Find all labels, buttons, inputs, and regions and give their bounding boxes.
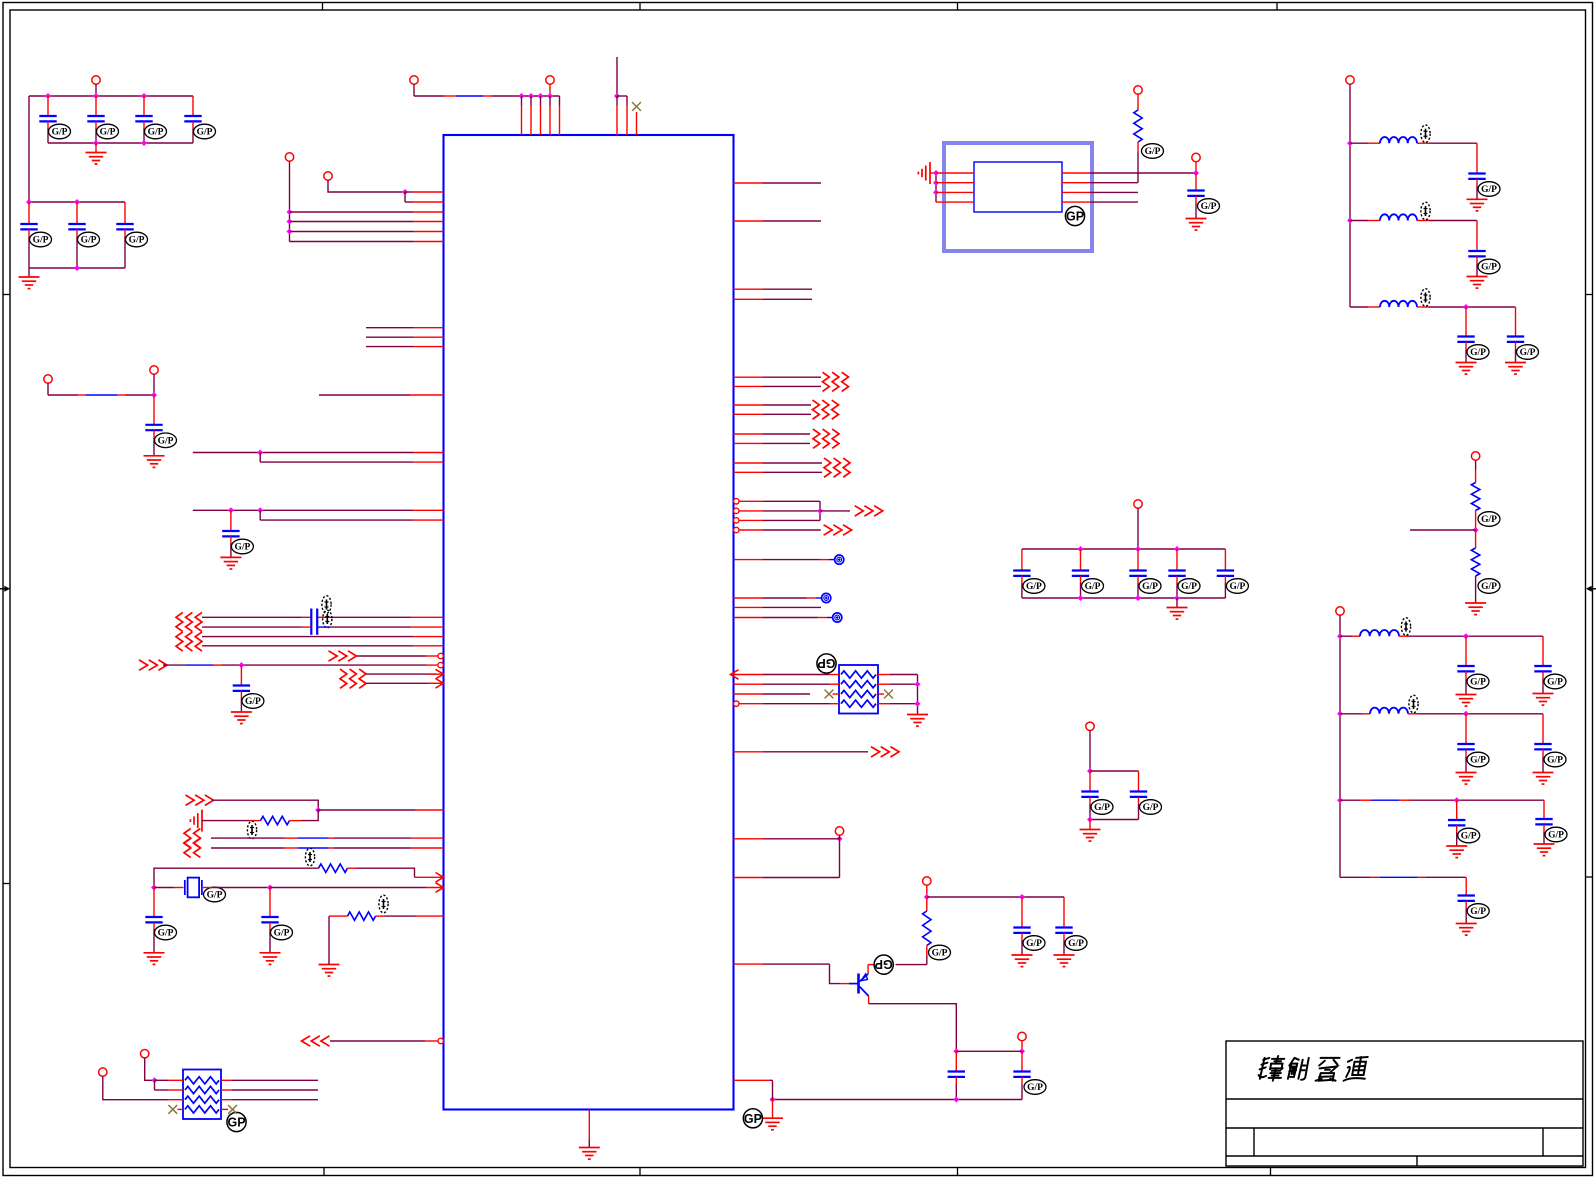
pin wire U1 left y327.7 (366, 327, 414, 329)
pin wire U1 left y683 arrow (366, 682, 436, 684)
wire net stub (616, 57, 618, 96)
wire RN1 out row3 nc (878, 693, 884, 695)
node junction (1174, 546, 1180, 552)
capacitor C1 (39, 96, 56, 143)
power pin VDD bank1 (92, 76, 100, 84)
pin wire U1 right y694 nc (734, 693, 764, 695)
ground (1467, 277, 1488, 289)
node junction (1078, 595, 1084, 601)
node junction (1473, 527, 1479, 533)
wire (820, 510, 850, 512)
svg-text:G/P: G/P (1229, 582, 1245, 592)
ground (1467, 199, 1488, 211)
capacitor C27 (1468, 221, 1485, 277)
wire (935, 173, 937, 202)
node junction (74, 265, 80, 271)
node junction (1347, 218, 1353, 224)
power pin P8 (923, 877, 931, 885)
node junction (257, 507, 263, 513)
power pin P16 (1336, 607, 1344, 615)
svg-text:G/P: G/P (1470, 756, 1486, 766)
node junction (547, 93, 553, 99)
pin stub U2 left (936, 191, 974, 193)
alt ground (190, 810, 202, 832)
svg-text:GP: GP (817, 656, 835, 670)
title block (1226, 1041, 1583, 1166)
svg-text:G/P: G/P (245, 697, 261, 707)
wire (839, 835, 841, 877)
node junction (93, 140, 99, 146)
svg-text:G/P: G/P (1548, 831, 1564, 841)
crystal X1 (185, 878, 202, 898)
ground (1456, 695, 1477, 707)
node junction (1463, 711, 1469, 717)
node junction (915, 681, 921, 687)
wire rail 1051 (956, 1050, 1022, 1052)
pin wire U1 left y346.6 (366, 346, 414, 348)
label G/P R5 (1142, 144, 1164, 159)
svg-text:G/P: G/P (1481, 515, 1497, 525)
pin wire U1 left y462 (260, 461, 413, 463)
ground (220, 557, 241, 569)
svg-text:G/P: G/P (1094, 803, 1110, 813)
ferrite bead row multicolour (1340, 799, 1544, 801)
svg-text:G/P: G/P (234, 543, 250, 553)
pin stub U2 right (1062, 172, 1090, 174)
wire (154, 1080, 156, 1090)
node junction (141, 140, 147, 146)
power pin P5 (141, 1050, 149, 1058)
wire (154, 887, 175, 889)
capacitor C14 pull (1013, 897, 1030, 955)
resistor R2 (319, 864, 348, 872)
svg-text:G/P: G/P (1461, 832, 1477, 842)
no-connect pin (636, 112, 638, 135)
pin stub U2 right (1062, 201, 1090, 203)
ground (144, 456, 165, 468)
resistor R1 (250, 820, 261, 822)
capacitor C28 (1457, 307, 1474, 363)
wire (328, 916, 330, 964)
pin wire pair U1 right 386.4 (734, 385, 764, 387)
ground (579, 1148, 600, 1160)
wire (1090, 172, 1196, 174)
capacitor C25 (1130, 771, 1147, 820)
capacitor C34 (1448, 800, 1465, 846)
wire (739, 529, 763, 531)
svg-text:GP: GP (744, 1112, 762, 1126)
svg-text:G/P: G/P (1481, 582, 1497, 592)
capacitor C36 (1458, 877, 1475, 923)
node junction (267, 885, 273, 891)
ground (1533, 694, 1554, 706)
pin wire U1 left y452 (193, 452, 413, 454)
series capacitor C10 plates (311, 609, 317, 635)
label GP ground (743, 1109, 762, 1128)
node junction (287, 209, 293, 215)
wire (301, 810, 318, 821)
resistor RN2 element 2 (185, 1086, 219, 1093)
wire (1090, 191, 1138, 193)
power pin P13 (1086, 722, 1094, 730)
negated pin circle (438, 662, 443, 667)
pin wire U1 right y877 (734, 877, 764, 879)
pin stub U1 top (626, 96, 628, 106)
ground (231, 712, 252, 724)
wire multicolour (48, 394, 154, 396)
wire (772, 1080, 774, 1099)
resistor RN2 element 1 (185, 1077, 219, 1084)
wire (178, 1108, 184, 1110)
wire (1475, 576, 1477, 603)
node junction (1337, 633, 1343, 639)
svg-text:G/P: G/P (1026, 939, 1042, 949)
wire RN2 output (221, 1099, 232, 1101)
ground (1176, 598, 1178, 608)
node junction (1019, 894, 1025, 900)
wire (1089, 731, 1091, 772)
pin wire U1 left y212 (290, 211, 414, 213)
pin wire pair U1 right 443.4 (734, 442, 764, 444)
resistor pack RN1 box (839, 665, 878, 714)
pin wire U1 left y665 negated multicolour (163, 664, 438, 666)
off-page chevrons out (row 665) (139, 660, 167, 670)
wire (739, 519, 763, 521)
capacitor C12 (145, 888, 162, 953)
ground (1534, 844, 1555, 856)
pin wire U1 left y241.5 (290, 241, 414, 243)
svg-text:G/P: G/P (1470, 678, 1486, 688)
label oval R3 (379, 895, 388, 913)
capacitor C29 (1507, 307, 1524, 363)
negated pin circle (438, 653, 443, 658)
pin wire pair U1 right 377.2 (734, 376, 764, 378)
svg-text:G/P: G/P (274, 929, 290, 939)
resistor R5 (1137, 94, 1139, 110)
capacitor C33 (1534, 714, 1551, 773)
svg-text:GP: GP (875, 957, 893, 971)
pin stub U2 left (936, 182, 974, 184)
pin wire U1 left y848 multicolour (211, 847, 444, 849)
svg-text:G/P: G/P (932, 949, 948, 959)
oscillator Y1 inner box (974, 162, 1062, 212)
no-connect X (228, 1105, 237, 1114)
off-page chevrons out pair (813, 400, 839, 419)
pin wire U1 left y231.5 (290, 231, 414, 233)
pin wire U1 right y684 (734, 683, 764, 685)
power pin P12 (1134, 500, 1142, 508)
inductor L4 (1340, 635, 1352, 637)
wire (413, 84, 415, 96)
ground (1505, 363, 1526, 375)
pin wire U1 left y656 negated (357, 655, 426, 657)
wire (1090, 201, 1138, 203)
wire collector row (896, 964, 927, 966)
pin wire U1 left y637 (202, 636, 413, 638)
node junction (74, 199, 80, 205)
capacitor C3 (135, 96, 152, 143)
node junction (238, 662, 244, 668)
svg-text:G/P: G/P (1145, 147, 1161, 157)
power net VCC1 top-left (410, 76, 418, 84)
node junction (915, 701, 921, 707)
pin stub U1 top (616, 96, 618, 106)
negated pin circle U1 right (734, 527, 739, 532)
node junction (26, 199, 32, 205)
pin wire U1 left y337.2 (366, 336, 414, 338)
wire (259, 510, 261, 520)
wire (867, 965, 869, 974)
capacitor C2 (87, 96, 104, 143)
pin wire U1 right y558 io (734, 559, 764, 561)
node junction (614, 93, 620, 99)
ground (1456, 363, 1477, 375)
negated pin circle U1 right y704 (734, 701, 739, 706)
node junction (287, 229, 293, 235)
ground pin U1 bottom (588, 1110, 590, 1141)
ground (1465, 603, 1486, 615)
label Cb circle rotated (874, 955, 893, 974)
label oval R2 (305, 848, 314, 866)
node junction (953, 1097, 959, 1103)
off-page chevrons out (row 800) (186, 795, 214, 805)
pin wire U1 right y598 io (734, 597, 764, 599)
svg-text:G/P: G/P (1181, 582, 1197, 592)
power pin top-left P1 (285, 153, 293, 161)
wire emitter (868, 996, 870, 1004)
capacitor C35 (1535, 800, 1552, 844)
resistor R4 pullup (926, 897, 928, 911)
wire bottom rail bank1 (48, 142, 193, 144)
wire (930, 172, 936, 174)
ground (1186, 219, 1207, 231)
module U2 outer box (944, 143, 1092, 251)
pin stub U1 top (540, 96, 542, 106)
off-page chevrons in (row 848) (184, 838, 200, 857)
off-page chevrons out pair (823, 372, 849, 391)
resistor RN2 element 4 (185, 1106, 219, 1113)
power pin P6 (99, 1068, 107, 1076)
wire (833, 693, 840, 695)
node junction (933, 170, 939, 176)
wire rail 1099 (773, 1099, 1023, 1101)
svg-text:G/P: G/P (52, 128, 68, 138)
pin wire U1 right y617 io (734, 617, 764, 619)
inductor L5 (1340, 713, 1362, 715)
off-page chevrons out (row 511) (855, 506, 883, 516)
svg-text:G/P: G/P (33, 236, 49, 246)
node junction (228, 507, 234, 513)
ground (1456, 924, 1477, 936)
wire RN2 output (221, 1089, 232, 1091)
wire stub left (1410, 529, 1476, 531)
pin stub U1 top (530, 96, 532, 106)
pin stub U1 top (521, 96, 523, 106)
resistor RN2 element 3 (185, 1096, 219, 1103)
wire (203, 887, 212, 889)
wire bottom rail bank5 (1022, 597, 1226, 599)
svg-text:G/P: G/P (1201, 202, 1217, 212)
power pin P3 (44, 375, 52, 383)
pin wire U1 left y617 with series capacitor (202, 616, 444, 618)
off-page chevrons in (rows 617/627) (176, 612, 202, 631)
node junction (538, 93, 544, 99)
pin wire U1 right y964 base (734, 963, 764, 965)
wire (1021, 1041, 1023, 1052)
node junction (1337, 711, 1343, 717)
node junction (315, 807, 321, 813)
label oval L3 (1421, 289, 1430, 307)
wire (212, 800, 318, 810)
wire top rail bank1 (29, 95, 193, 97)
svg-text:GP: GP (227, 1116, 245, 1130)
capacitor C23 (1217, 549, 1234, 598)
wire (739, 703, 763, 705)
power pin P4 (150, 366, 158, 374)
off-page chevrons out pair (824, 458, 850, 477)
label GP pack1 rotated (817, 654, 836, 673)
pin wire U1 left y674 arrow (366, 673, 436, 675)
capacitor C31 (1534, 636, 1551, 693)
power pin P15 (1471, 452, 1479, 460)
resistor R7 (1475, 530, 1477, 548)
label G/P R6 (1478, 512, 1500, 527)
pin wire U1 right y299 (734, 298, 764, 300)
negated pin circle U1 right (734, 508, 739, 513)
pin wire U1 left y627 (202, 626, 444, 628)
capacitor C32 (1457, 714, 1474, 773)
alt ground (918, 162, 930, 184)
node junction (1087, 768, 1093, 774)
capacitor C20 (1072, 549, 1089, 598)
label G/P R7 (1478, 579, 1500, 594)
pin wire U1 left y192 (405, 191, 413, 193)
svg-text:G/P: G/P (207, 891, 223, 901)
pin wire U1 right y221 (734, 220, 764, 222)
power pin P2 (324, 172, 332, 180)
node junction (519, 93, 525, 99)
node junction (152, 1077, 158, 1083)
label G/P R4 (929, 945, 951, 960)
pin stub U2 left (936, 172, 974, 174)
label oval L5 (1409, 695, 1418, 713)
label refdes oval (323, 610, 332, 628)
no-connect X (168, 1105, 177, 1114)
no-connect X (825, 690, 834, 699)
ground (917, 714, 919, 715)
pin wire U1 left y810 (318, 809, 415, 811)
svg-text:G/P: G/P (129, 236, 145, 246)
wire (154, 868, 319, 887)
node junction (45, 93, 51, 99)
pin wire pair U1 right 414.3 (734, 413, 764, 415)
ground (319, 965, 340, 977)
node junction (933, 189, 939, 195)
negated pin circle U1 right (734, 518, 739, 523)
wire bottom rail bank2 (29, 267, 125, 269)
pin wire U1 left y221.5 (290, 221, 414, 223)
wire (1466, 635, 1543, 637)
capacitor C11 (233, 665, 250, 712)
off-page chevrons out pair (813, 429, 839, 448)
node junction (257, 450, 263, 456)
wire top rail bank2 (29, 201, 125, 203)
capacitor C6 (68, 202, 85, 268)
node junction (1087, 817, 1093, 823)
resistor RN1 element 1 (841, 671, 876, 678)
pin arrow U1 left y887 (436, 883, 444, 893)
company name text (1258, 1056, 1369, 1081)
svg-text:G/P: G/P (1481, 185, 1497, 195)
pin wire U1 right y607 (734, 606, 764, 608)
wire (103, 1076, 168, 1099)
svg-text:GP: GP (1066, 210, 1084, 224)
node junction (1135, 595, 1141, 601)
pin wire U1 left y838 multicolour (211, 837, 444, 839)
IC U1 main controller body (444, 135, 734, 1110)
pin wire U1 left y395 (319, 394, 410, 396)
capacitor C19 (1013, 549, 1030, 598)
pin wire U1 left y877 arrow (415, 876, 444, 878)
node junction (837, 836, 843, 842)
off-page chevrons out (rows 674/683) (340, 669, 366, 688)
wire vertical bank1-bank2 (28, 96, 30, 202)
label value oval (322, 596, 331, 614)
negated pin circle (438, 1038, 443, 1043)
resistor pack RN2 box (183, 1070, 221, 1120)
pin wire U1 left y1041 negated (330, 1040, 425, 1042)
svg-text:G/P: G/P (1470, 907, 1486, 917)
pin wire U1 right y674 arrow (731, 670, 739, 680)
node junction (287, 219, 293, 225)
no-connect X (632, 102, 641, 111)
pin stub U1 top (559, 96, 561, 106)
node junction (953, 1048, 959, 1054)
no-connect X (884, 690, 893, 699)
svg-text:G/P: G/P (1470, 348, 1486, 358)
pin wire U1 left y646 (202, 645, 413, 647)
svg-text:G/P: G/P (1520, 348, 1536, 358)
capacitor C15 pull (1055, 897, 1072, 955)
capacitor C21 (1129, 549, 1146, 598)
node junction (141, 93, 147, 99)
off-page chevrons out (row 752) (871, 747, 899, 757)
capacitor C30 (1457, 636, 1474, 694)
svg-text:G/P: G/P (148, 128, 164, 138)
wire (926, 946, 928, 956)
base lead (849, 983, 858, 985)
pin wire U1 left y520 (260, 519, 413, 521)
ground (1533, 773, 1554, 785)
wire (917, 675, 919, 714)
resistor RN1 element 4 (841, 700, 876, 707)
svg-text:G/P: G/P (1547, 678, 1563, 688)
label G/P crystal (204, 887, 226, 902)
pin wire U1 left y510 (193, 509, 413, 511)
svg-text:G/P: G/P (1547, 756, 1563, 766)
pin wire U1 right y289 (734, 288, 764, 290)
svg-text:G/P: G/P (1026, 582, 1042, 592)
wire RN1 out row4 (878, 703, 890, 705)
wire rail (1090, 770, 1139, 772)
wire bottom rail (1090, 819, 1139, 821)
wire (357, 868, 415, 877)
svg-text:G/P: G/P (1085, 582, 1101, 592)
node junction (1347, 140, 1353, 146)
wire rail y897 (927, 896, 1064, 898)
pin wire U1 right y752 (734, 751, 764, 753)
wire (221, 1108, 228, 1110)
